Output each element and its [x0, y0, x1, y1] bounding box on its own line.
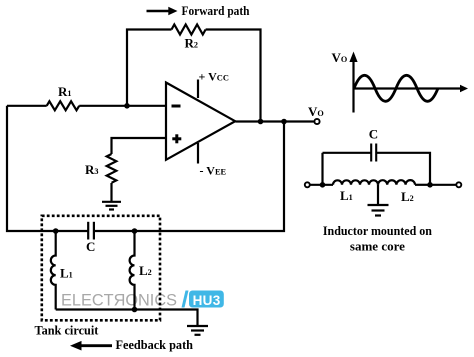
Electronics Hub watermark [61, 291, 224, 310]
svg-text:L2: L2 [139, 263, 152, 278]
wire: left terminal to node [310, 184, 333, 186]
wire: coil to right node [415, 184, 430, 186]
svg-text:L1: L1 [60, 266, 73, 281]
wire: feedback from output down to tank [94, 122, 284, 232]
resistor R3 [107, 154, 117, 183]
junction: output/feedback node [281, 119, 287, 125]
svg-text:L2: L2 [401, 189, 414, 204]
junction: right node [427, 182, 433, 188]
wire: inverting input from left [7, 105, 47, 107]
svg-text:- VEE: - VEE [200, 163, 227, 177]
ground (tank) [187, 326, 208, 335]
waveform horizontal axis [354, 87, 462, 89]
inductor L1 (right circuit) [333, 180, 378, 184]
op-amp minus sign [172, 105, 181, 108]
wire: tank bottom [56, 310, 198, 326]
op-amp plus sign [172, 134, 181, 143]
wire: R3 to ground [110, 183, 112, 201]
svg-text:Forward path: Forward path [182, 4, 250, 18]
junction: L2 bottom node [132, 307, 138, 313]
junction: L1 tap [53, 228, 59, 234]
svg-text:Feedback path: Feedback path [116, 338, 194, 352]
svg-text:R1: R1 [58, 84, 71, 99]
ground (center tap) [368, 205, 389, 216]
resistor R1 [47, 101, 79, 110]
svg-text:Tank circuit: Tank circuit [35, 323, 100, 337]
svg-text:+ VCC: + VCC [199, 70, 229, 84]
feedback path arrow [70, 341, 112, 351]
resistor R2 [172, 25, 206, 35]
svg-text:Inductor mounted on: Inductor mounted on [323, 224, 432, 238]
right circuit: left terminal [305, 182, 310, 187]
wire: R1 to op-amp inverting input [79, 105, 166, 107]
op-amp +Vcc pin [197, 80, 199, 99]
waveform vertical axis [352, 58, 354, 113]
junction: L2 tap [132, 228, 138, 234]
svg-text:R2: R2 [185, 36, 198, 51]
wire: capacitor loop left [323, 152, 372, 154]
wire: R2 branch right vertical to output node [206, 30, 261, 122]
svg-text:C: C [86, 239, 95, 254]
inductor L2 [130, 231, 135, 310]
ground below R3 [102, 202, 121, 210]
capacitor C (right circuit) [371, 144, 376, 162]
junction: left node [320, 182, 326, 188]
svg-text:C: C [369, 127, 378, 142]
inductor L2 (right circuit) [378, 180, 415, 185]
svg-text:VO: VO [308, 104, 324, 119]
sine wave [354, 75, 438, 101]
wire: non-inverting input [112, 138, 167, 154]
svg-text:HU3: HU3 [193, 293, 221, 308]
inductor L1 [51, 231, 56, 310]
svg-text:R3: R3 [85, 162, 98, 177]
wire: op-amp output [236, 120, 314, 122]
capacitor C (tank) [88, 222, 94, 240]
op-amp -Vee pin [197, 143, 199, 164]
forward path arrow [147, 7, 178, 16]
wire: capacitor loop right [376, 153, 430, 185]
right terminal [456, 182, 461, 187]
junction: R1/R2 node [124, 103, 130, 109]
op-amp U1 [166, 83, 235, 160]
output terminal Vo [314, 119, 319, 124]
tank circuit dotted box [42, 216, 160, 320]
junction: output/R2 node [258, 119, 264, 125]
wire: center tap to ground [377, 185, 379, 204]
wire: tank top left + left feedback wire [7, 106, 88, 231]
svg-text:L1: L1 [340, 188, 353, 203]
wire: R2 branch left vertical [127, 30, 172, 107]
wire: node to right terminal [430, 184, 456, 186]
svg-text:VO: VO [332, 50, 348, 65]
svg-text:same core: same core [350, 239, 405, 254]
